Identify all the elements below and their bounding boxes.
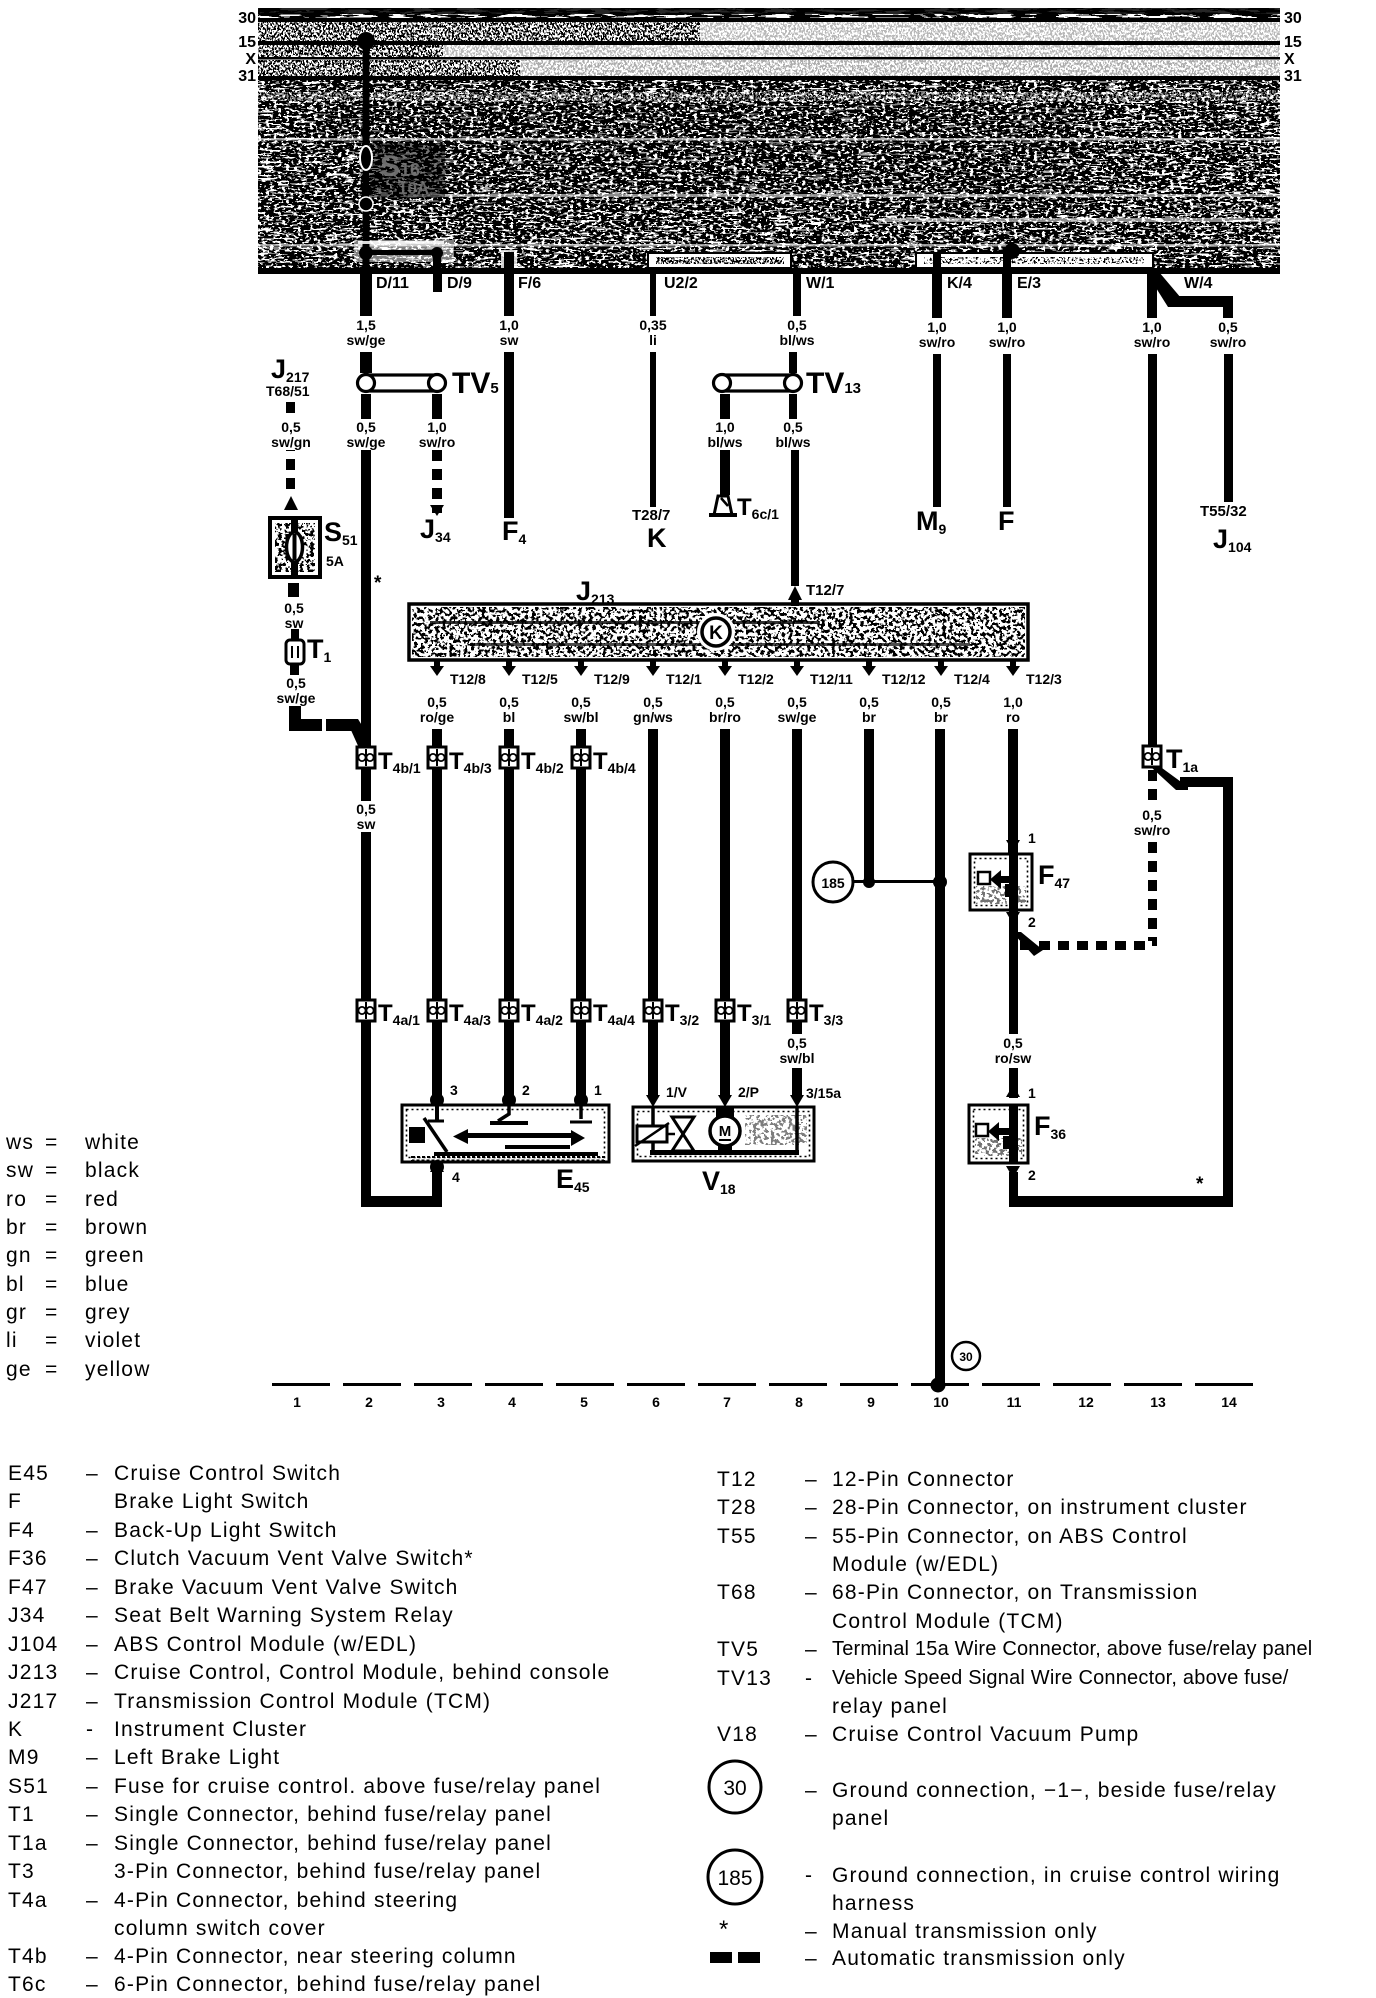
svg-text:TV13: TV13	[806, 367, 861, 400]
svg-text:M: M	[719, 1123, 732, 1140]
svg-text:30: 30	[723, 1777, 746, 1800]
svg-text:185: 185	[821, 875, 845, 891]
svg-text:185: 185	[717, 1867, 752, 1890]
svg-text:K: K	[709, 623, 723, 644]
svg-text:30: 30	[959, 1350, 973, 1364]
svg-text:TV5: TV5	[452, 367, 499, 400]
